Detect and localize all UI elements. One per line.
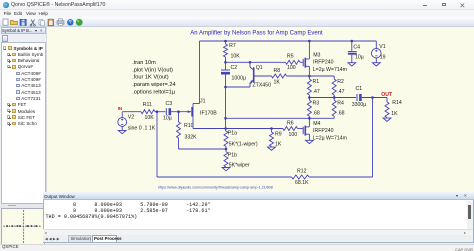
svg-text:10µ: 10µ [355,54,364,60]
junction Q1 emitter [224,85,227,88]
tree area [1,42,46,204]
junction rail C4 [350,39,353,42]
svg-text:1000µ: 1000µ [231,75,246,81]
toolbar paste icon [48,19,54,26]
junction rail R7 [224,39,227,42]
tab Post Process (active) [92,235,117,242]
junction OUT node [371,96,374,99]
svg-text:.four 1K V(out): .four 1K V(out) [132,74,169,80]
svg-text:ZTX450: ZTX450 [252,82,271,88]
wire R2 bottom stub [333,95,335,100]
wire left rail to J1 drain [198,41,200,104]
wire R9 top stub [270,128,272,132]
JFET J1 [192,103,194,128]
resistor R6 [282,126,297,130]
wire R1 top stub [308,76,310,79]
vertical splitter between dock and canvas [46,27,48,193]
ground below R14 [383,118,391,121]
resistor R8 [271,74,286,78]
junction M4 drain [308,117,311,120]
svg-text:An Amplifier by Nelson Pass fo: An Amplifier by Nelson Pass for Amp Camp… [190,30,323,36]
wire R8 to M3 source [286,75,309,77]
output vertical scrollbar thumb [468,205,472,219]
ground below V2 [118,130,126,133]
wire V1 bottom stub [375,58,377,63]
svg-text:.tran 10m: .tran 10m [132,59,156,65]
svg-text:19: 19 [379,54,385,60]
svg-text:R11: R11 [142,101,151,107]
app icon [3,2,9,8]
svg-text:?: ? [69,20,72,26]
wire R3 bottom stub [308,116,310,118]
resistor R5 [285,60,300,64]
MOSFET M4 [302,126,304,133]
toolbar open icon [11,21,18,25]
junction Q1 collector [248,61,251,64]
menu bar [0,10,474,18]
svg-text:332K: 332K [184,134,197,140]
wire C4 top stub [350,41,352,52]
ground below C4 [347,62,355,65]
ground below P1b [222,167,230,170]
svg-text:R10: R10 [184,123,194,129]
potentiometer section P1b [224,151,228,166]
svg-text:100: 100 [287,65,296,71]
tab Simulation [68,235,91,242]
svg-text:R6: R6 [287,120,294,126]
svg-text:.plot V(in) V(out): .plot V(in) V(out) [132,67,173,73]
svg-text:M3: M3 [313,52,320,58]
junction pot top [224,127,227,130]
toolbar print icon [57,21,64,25]
wire R7 top stub [224,41,226,44]
wire mid node to C1 [309,96,356,98]
svg-text:1K: 1K [275,141,282,147]
title text [11,2,105,8]
svg-text:5K*(1-wiper): 5K*(1-wiper) [228,141,257,147]
wire R1 R2 top [309,75,334,77]
svg-text:V2: V2 [127,114,133,120]
capacitor C2 [221,69,230,71]
svg-text:V1: V1 [379,44,385,50]
junction R7 C2 collector [224,61,227,64]
svg-text:R1: R1 [312,79,319,85]
svg-text:P1b: P1b [227,152,236,158]
junction rail M3 drain [308,39,311,42]
wire feedback bottom right [309,176,373,178]
window restore button [442,3,446,7]
wire pot wiper node [225,146,227,151]
svg-text:R4: R4 [337,100,344,106]
wire R10 top stub [177,111,179,121]
left dock panel frame [0,27,46,204]
transistor Q1 [249,62,251,67]
svg-text:R8: R8 [273,68,280,74]
capacitor C1 [356,94,358,101]
toolbar [0,17,474,27]
wire R14 top stub [386,97,388,102]
svg-text:L=2µ W=714m: L=2µ W=714m [312,135,346,141]
wire R2 top stub [333,76,335,79]
svg-text:IN: IN [117,106,121,111]
wire Q1 emitter [225,86,250,88]
wire C4 bottom stub [350,54,352,62]
svg-text:.68: .68 [312,110,319,116]
svg-text:10K: 10K [144,114,154,120]
resistor R2 [332,79,336,95]
svg-text:J1: J1 [200,98,206,104]
wire V1 top stub [375,41,377,48]
title bar [0,0,474,10]
svg-text:C1: C1 [355,85,362,91]
window close button [460,3,465,8]
svg-text:C3: C3 [165,101,172,107]
svg-text:IRFP240: IRFP240 [313,128,334,134]
svg-text:R12: R12 [297,168,307,174]
svg-text:.47: .47 [337,89,344,95]
toolbar copy icon [39,20,43,25]
svg-text:10µ: 10µ [163,115,172,121]
resistor R9 [269,132,273,147]
toolbar help icon [67,19,73,25]
output text [46,203,211,221]
svg-text:R9: R9 [275,131,282,137]
svg-text:5K*wiper: 5K*wiper [228,162,249,168]
splitter between tree and preview [0,204,46,208]
svg-text:IRFP240: IRFP240 [313,59,334,65]
junction R10 tap [177,110,180,113]
schematic canvas [47,27,474,193]
wire node to R5 [225,61,285,63]
svg-text:R3: R3 [312,100,319,106]
svg-text:100: 100 [288,132,297,138]
svg-text:P1a: P1a [227,130,236,136]
wire C2 to pot P1a [224,74,226,131]
capacitor C3 [165,108,167,115]
symbol panel header [1,27,46,34]
wire J1 source to R6 [193,127,283,129]
wire OUT drop [371,97,373,177]
wire R7 to C2 [224,57,226,70]
voltage source V2 [117,117,126,126]
svg-text:.param wiper=.24: .param wiper=.24 [132,81,175,87]
symbol panel toolbar row [1,34,46,42]
toolbar new icon [3,19,8,25]
wire R5 to M3 gate [300,61,303,63]
output tab bar [43,235,473,243]
panel paste-symbol icon [2,35,8,42]
wire R4 bottom stub [333,116,335,118]
svg-text:68.1K: 68.1K [295,180,309,186]
wire R10 bottom stub [177,138,179,149]
junction feedback tap [155,110,158,113]
wire V2 bottom stub [121,126,123,130]
svg-text:L=2µ W=714m: L=2µ W=714m [312,66,346,72]
output horizontal scrollbar [43,229,473,235]
toolbar cut icon [31,20,35,26]
voltage source V1 [371,48,381,58]
ground below V1 [372,62,380,65]
output vertical scrollbar track [467,201,474,230]
svg-text:M4: M4 [313,120,320,126]
resistor R1 [307,79,311,95]
capacitor C4 [347,50,356,52]
junction feedback node [224,117,227,120]
svg-text:IF170B: IF170B [200,110,217,116]
schematic preview thumbnail panel [1,208,45,246]
ground below R9 [267,147,275,150]
wire Q1 base to R8 [253,75,271,77]
wire C1 to R14 [361,96,386,98]
junction R1 R3 [308,96,311,99]
svg-text:R7: R7 [229,42,236,48]
junction R9 tap [270,127,273,130]
wire V2 to R11 [122,110,141,112]
svg-text:R2: R2 [337,79,344,85]
junction R2 R4 [332,96,335,99]
wire bottom ladder rail [225,117,334,119]
wire feedback bottom left [157,176,292,178]
resistor R3 [307,100,311,116]
toolbar save icon [20,19,26,25]
svg-text:R5: R5 [287,53,294,59]
resistor R10 [176,122,180,138]
resistor R4 [332,100,336,116]
svg-text:R14: R14 [392,99,402,105]
status bar [0,244,474,251]
svg-text:C2: C2 [230,65,237,71]
resistor R14 [385,102,389,118]
wire R6 to M4 gate [297,127,303,129]
svg-text:https://www.diyaudio.com/commu: https://www.diyaudio.com/community/threa… [158,185,273,189]
svg-text:1K: 1K [273,79,280,85]
toolbar run icon [76,19,83,26]
svg-text:C4: C4 [353,44,360,50]
svg-text:1K: 1K [391,110,398,116]
svg-text:3300µ: 3300µ [351,101,366,107]
wire R1 bottom stub [308,95,310,100]
svg-text:sine 0 .1 1K: sine 0 .1 1K [127,125,155,131]
wire J1 drain jog [193,102,200,104]
svg-text:.68: .68 [337,110,344,116]
MOSFET M3 [302,58,304,65]
wire V2 top stub [121,111,123,117]
junction pot wiper [224,147,227,150]
wire V+ top rail [199,40,376,42]
svg-text:10K: 10K [230,53,240,59]
window minimize button [423,4,427,7]
svg-text:.options reltol=1µ: .options reltol=1µ [132,89,176,95]
ground below M4 [305,140,313,143]
output window header [43,192,474,200]
wire R10 to pot wiper [178,148,226,150]
output window panel [43,192,474,243]
resistor R11 [141,109,155,113]
resistor R12 [291,175,309,179]
wire feedback left drop [156,111,158,176]
wire C3 to J1 gate [171,110,191,112]
potentiometer section P1a [224,131,228,147]
svg-text:OUT: OUT [381,92,393,98]
svg-text:.47: .47 [312,89,319,95]
wire R11 to C3 [155,110,165,112]
junction M3 source [308,74,311,77]
svg-text:Q1: Q1 [255,65,262,71]
resistor R7 [223,44,227,57]
